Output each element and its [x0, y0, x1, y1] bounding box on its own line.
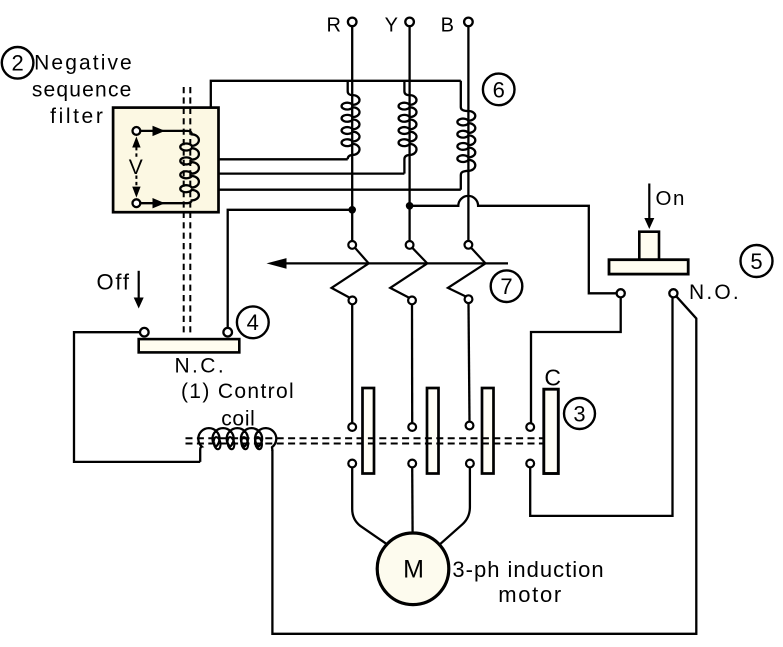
V dashed measure line with arrowheads — [132, 137, 140, 198]
svg-text:4: 4 — [247, 310, 259, 335]
svg-text:2: 2 — [11, 51, 23, 76]
pole C lower contact — [526, 460, 534, 468]
wire Off switch to control coil — [74, 332, 200, 462]
overload coil R — [342, 81, 360, 160]
motor M — [377, 533, 449, 605]
wire R contact to pole 1 — [351, 304, 353, 423]
svg-text:N.O.: N.O. — [689, 281, 741, 304]
overload coil Y — [399, 81, 417, 174]
pole 1 lower contact — [348, 460, 356, 468]
svg-text:M: M — [403, 555, 424, 583]
filter terminal bottom — [133, 199, 141, 207]
terminal Y — [405, 18, 414, 27]
On push arrow — [644, 184, 654, 230]
contact 7 B upper terminal — [465, 241, 473, 249]
svg-text:On: On — [656, 187, 686, 210]
contactor pole 2 bar — [427, 388, 439, 474]
wire On left terminal to pole C top — [530, 297, 620, 423]
Off push arrow — [134, 271, 144, 309]
terminal B — [464, 18, 473, 27]
pole C upper contact — [526, 423, 534, 431]
label 4 circled — [237, 306, 269, 338]
On button plate — [609, 260, 688, 274]
label 3 circled — [564, 398, 595, 429]
svg-text:3-ph induction: 3-ph induction — [452, 557, 604, 582]
pole 3 lower contact — [466, 460, 474, 468]
pole 3 upper contact — [466, 422, 474, 430]
svg-text:3: 3 — [573, 401, 585, 426]
label 7 circled — [491, 270, 523, 302]
contact 7 B lower terminal — [465, 295, 473, 303]
contactor pole 1 bar — [363, 388, 375, 474]
pole 2 lower contact — [408, 460, 416, 468]
control coil — [198, 428, 276, 462]
wire Y contact to pole 2 — [411, 304, 414, 423]
wire pole 1 to motor — [352, 467, 387, 544]
trip bar arrowhead — [267, 258, 287, 269]
terminal R — [348, 18, 357, 27]
svg-text:R: R — [327, 14, 341, 36]
wire B line vertical — [467, 26, 469, 241]
overload coil B — [457, 81, 475, 190]
pole 1 upper contact — [348, 423, 356, 431]
Off switch right terminal — [223, 328, 232, 337]
svg-text:7: 7 — [500, 274, 512, 299]
arrow on filter bottom lead — [153, 198, 166, 208]
wire pole 2 to motor — [411, 467, 414, 533]
junction dot on Y line — [406, 202, 414, 210]
On switch right terminal — [669, 289, 677, 297]
svg-text:motor: motor — [498, 582, 563, 607]
svg-text:N.C.: N.C. — [174, 355, 226, 378]
svg-text:V: V — [129, 156, 143, 179]
wire control tap from Off switch to R junction — [228, 210, 353, 328]
svg-text:Y: Y — [385, 14, 398, 36]
label 5 circled — [741, 245, 773, 277]
wire Y line vertical — [408, 26, 410, 241]
wire B contact to pole 3 — [469, 303, 470, 422]
contact 7 R blade — [332, 248, 369, 298]
svg-text:B: B — [441, 14, 454, 36]
Off switch NC bar — [139, 339, 240, 352]
svg-text:5: 5 — [750, 249, 762, 274]
junction dot on R line — [348, 206, 356, 214]
mechanical link vertical dashed pair — [184, 87, 191, 335]
pole 2 upper contact — [408, 423, 416, 431]
wire filter line c to B coil — [219, 189, 461, 191]
svg-text:filter: filter — [50, 105, 105, 128]
contactor pole C bar — [544, 389, 559, 473]
wire filter line b to Y coil — [219, 172, 405, 174]
Off switch left terminal — [140, 328, 149, 337]
label 2 circled — [2, 47, 34, 79]
On button stem — [639, 232, 659, 260]
svg-text:C: C — [544, 365, 561, 391]
svg-text:6: 6 — [493, 77, 505, 102]
filter terminal top — [133, 127, 141, 135]
svg-text:(1) Control: (1) Control — [181, 380, 295, 403]
mechanical link horizontal dashed pair — [186, 438, 544, 443]
filter winding with top and bottom leads — [140, 131, 199, 203]
contactor pole 3 bar — [482, 388, 494, 474]
wire pole C bottom to On right terminal — [530, 297, 672, 516]
contact 7 Y lower terminal — [408, 297, 416, 305]
arrow on filter top lead — [153, 126, 166, 136]
contact 7 R lower terminal — [349, 297, 357, 305]
wire pole 3 to motor — [439, 467, 470, 545]
On switch left terminal — [617, 289, 625, 297]
wire control tap from Y junction to On switch with hop over B — [410, 196, 617, 293]
contact 7 B blade — [448, 248, 486, 297]
wire control coil to bottom rail to NO blade — [272, 296, 696, 634]
label Negative sequence filter — [32, 52, 134, 129]
wire R line vertical — [351, 26, 353, 241]
contact 7 R upper terminal — [348, 241, 356, 249]
wire filter box top riser to top bus — [211, 81, 461, 108]
svg-text:Negative: Negative — [34, 52, 134, 75]
trip bar arrow line — [284, 262, 508, 264]
svg-text:sequence: sequence — [32, 78, 133, 101]
contact 7 Y upper terminal — [406, 241, 414, 249]
wire filter line a to R coil — [219, 158, 348, 160]
negative sequence filter box — [113, 108, 218, 213]
label 6 circled — [483, 74, 515, 106]
svg-text:Off: Off — [97, 270, 131, 295]
contact 7 Y blade — [390, 248, 427, 298]
